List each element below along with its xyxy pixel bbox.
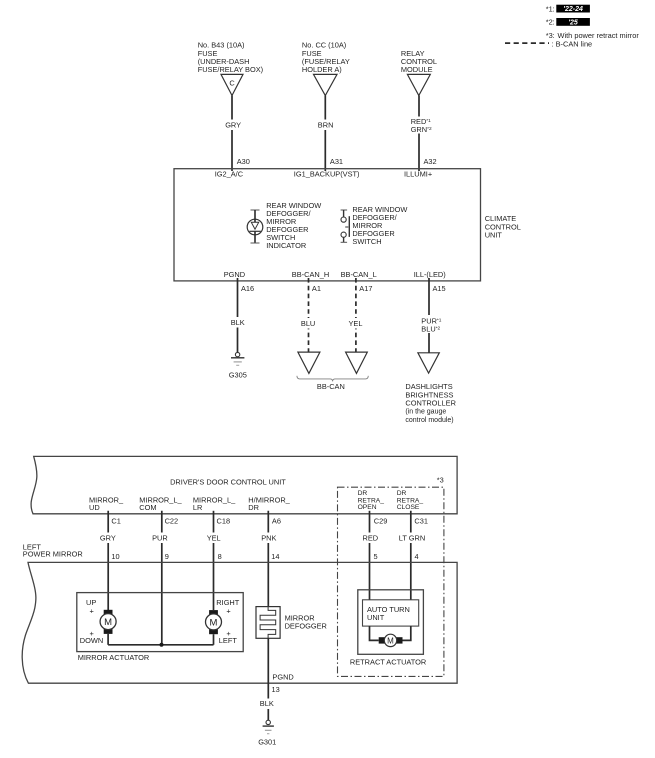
wire auto turn to motor right — [402, 626, 411, 640]
wire PUR C22 to actuator common — [161, 511, 163, 645]
svg-text:BLK: BLK — [260, 699, 274, 708]
svg-text:BLU: BLU — [301, 319, 315, 328]
driver's door control unit box (torn left edge) — [31, 456, 457, 513]
connector triangle BB-CAN_L — [346, 352, 368, 373]
svg-text:A17: A17 — [359, 284, 372, 293]
svg-text:LR: LR — [193, 503, 202, 512]
svg-text:M: M — [210, 617, 218, 628]
svg-text:: B-CAN line: : B-CAN line — [552, 40, 593, 49]
motor M3 (retract) — [379, 637, 385, 643]
motor M2 (right/left) — [209, 610, 218, 615]
svg-text:COM: COM — [139, 503, 156, 512]
LED rear window defogger/mirror defogger switch indicator — [247, 219, 263, 235]
svg-text:DOWN: DOWN — [80, 636, 103, 645]
svg-text:HOLDER A): HOLDER A) — [302, 65, 342, 74]
connector triangle BB-CAN_H — [298, 352, 320, 373]
svg-text:RETRACT ACTUATOR: RETRACT ACTUATOR — [350, 658, 426, 667]
wire BLK to G305 — [237, 278, 239, 352]
svg-text:A1: A1 — [312, 284, 321, 293]
switch rear window defogger/mirror defogger — [341, 209, 348, 211]
svg-text:BB-CAN_H: BB-CAN_H — [292, 270, 329, 279]
svg-text:9: 9 — [165, 552, 169, 561]
svg-text:YEL: YEL — [349, 319, 363, 328]
svg-text:PGND: PGND — [224, 270, 245, 279]
svg-text:C: C — [229, 79, 235, 88]
svg-text:DR: DR — [248, 503, 259, 512]
svg-text:INDICATOR: INDICATOR — [266, 241, 306, 250]
svg-text:ILL-(LED): ILL-(LED) — [414, 270, 446, 279]
svg-text:GRY: GRY — [225, 120, 241, 129]
relay control module connector triangle — [407, 74, 430, 95]
legend black box '25 — [556, 18, 590, 26]
svg-text:10: 10 — [111, 552, 119, 561]
pin DR RETRA_CLOSE — [397, 490, 424, 511]
wire RED/GRN A32 — [418, 96, 420, 172]
mirror actuator box — [77, 593, 243, 652]
wire GRY C1 to mirror actuator — [107, 511, 109, 610]
wire auto turn to motor left — [370, 626, 379, 640]
svg-text:A32: A32 — [424, 157, 437, 166]
wire PUR/BLU ILL — [428, 278, 430, 353]
auto turn unit box — [363, 600, 419, 626]
svg-text:8: 8 — [218, 552, 222, 561]
svg-text:C31: C31 — [414, 517, 428, 526]
svg-text:DR: DR — [397, 490, 407, 497]
svg-text:LEFT: LEFT — [219, 636, 238, 645]
svg-text:4: 4 — [415, 552, 419, 561]
svg-text:GRY: GRY — [100, 533, 116, 542]
svg-text:A30: A30 — [237, 157, 250, 166]
svg-text:MIRROR ACTUATOR: MIRROR ACTUATOR — [78, 653, 150, 662]
retract actuator box — [358, 590, 424, 655]
svg-text:CLOSE: CLOSE — [397, 504, 420, 511]
motor M1 (up/down) — [104, 610, 113, 615]
wire YEL C18 to mirror actuator — [213, 511, 215, 610]
svg-text:IG1_BACKUP(VST): IG1_BACKUP(VST) — [294, 170, 360, 179]
svg-text:RED: RED — [363, 533, 379, 542]
svg-text:A16: A16 — [241, 284, 254, 293]
svg-text:+: + — [90, 606, 94, 615]
svg-text:PGND: PGND — [272, 672, 293, 681]
svg-text:POWER MIRROR: POWER MIRROR — [23, 550, 83, 559]
pin DR RETRA_OPEN — [358, 490, 385, 511]
svg-text:YEL: YEL — [207, 533, 221, 542]
svg-text:A15: A15 — [433, 284, 446, 293]
svg-text:'22-24: '22-24 — [563, 6, 583, 13]
svg-text:DRIVER'S DOOR CONTROL UNIT: DRIVER'S DOOR CONTROL UNIT — [170, 478, 286, 487]
BB-CAN brace — [297, 376, 368, 382]
svg-text:BLK: BLK — [231, 318, 245, 327]
svg-text:A6: A6 — [272, 517, 281, 526]
svg-text:C18: C18 — [217, 517, 231, 526]
svg-text:ILLUMI+: ILLUMI+ — [404, 170, 432, 179]
wire BLK to G301 — [267, 638, 269, 720]
svg-text:*1:: *1: — [546, 4, 555, 13]
svg-text:M: M — [104, 617, 112, 628]
svg-text:'25: '25 — [568, 20, 578, 27]
svg-text:DR: DR — [358, 490, 368, 497]
svg-text:PUR: PUR — [152, 533, 168, 542]
svg-text:C1: C1 — [111, 517, 120, 526]
svg-text:OPEN: OPEN — [358, 504, 377, 511]
left power mirror box (torn left edge) — [22, 562, 457, 683]
svg-text:(in the gauge: (in the gauge — [405, 409, 446, 416]
svg-text:UD: UD — [89, 503, 100, 512]
svg-text:G301: G301 — [258, 737, 276, 746]
svg-text:MODULE: MODULE — [401, 65, 433, 74]
ground G305 — [235, 352, 239, 356]
svg-text:LT GRN: LT GRN — [399, 533, 425, 542]
svg-text:BRN: BRN — [318, 120, 334, 129]
wire YEL BB-CAN_L (dashed) — [355, 278, 357, 352]
wire RED C29 to auto turn unit — [369, 511, 371, 600]
svg-text:14: 14 — [271, 552, 279, 561]
ground G301 — [266, 720, 270, 724]
svg-text:UNIT: UNIT — [485, 231, 503, 240]
svg-text:CONTROLLER: CONTROLLER — [405, 399, 456, 408]
*3 dash-dot box (power retract option) — [338, 487, 444, 676]
svg-text:PNK: PNK — [261, 533, 276, 542]
svg-text:5: 5 — [374, 552, 378, 561]
svg-text:*3: *3 — [437, 476, 444, 485]
junction dot — [160, 643, 164, 647]
climate control unit box — [174, 169, 481, 281]
wire LT GRN C31 to auto turn unit — [410, 511, 412, 600]
svg-text:FUSE/RELAY BOX): FUSE/RELAY BOX) — [198, 65, 263, 74]
svg-text:BB-CAN_L: BB-CAN_L — [341, 270, 377, 279]
wire BRN A31 — [324, 96, 326, 172]
connector triangle dashlights — [418, 353, 439, 373]
svg-text:A31: A31 — [330, 157, 343, 166]
svg-text:*2:: *2: — [546, 17, 555, 26]
legend B-CAN dashed sample — [505, 42, 549, 44]
wire actuator common bus — [108, 644, 213, 646]
wire PNK A6 to mirror defogger — [267, 511, 269, 607]
wire BLU BB-CAN_H (dashed) — [308, 278, 310, 352]
svg-text:SWITCH: SWITCH — [352, 237, 381, 246]
mirror defogger — [256, 607, 280, 639]
fuse CC connector triangle — [314, 74, 338, 95]
svg-text:13: 13 — [272, 685, 280, 694]
wire GRY A30 — [231, 96, 233, 172]
svg-text:DEFOGGER: DEFOGGER — [285, 622, 327, 631]
svg-text:control module): control module) — [405, 417, 453, 424]
svg-text:C29: C29 — [374, 517, 388, 526]
svg-text:BB-CAN: BB-CAN — [317, 382, 345, 391]
svg-text:C22: C22 — [165, 517, 179, 526]
svg-text:UNIT: UNIT — [367, 613, 385, 622]
svg-text:IG2_A/C: IG2_A/C — [215, 170, 244, 179]
svg-text:+: + — [226, 606, 230, 615]
legend black box '22-24 — [556, 5, 590, 13]
svg-text:M: M — [387, 636, 394, 645]
svg-text:G305: G305 — [229, 371, 247, 380]
fuse B43 connector triangle C — [221, 74, 243, 95]
